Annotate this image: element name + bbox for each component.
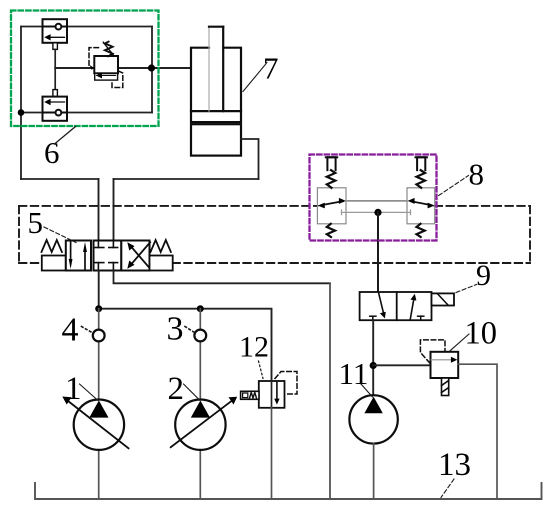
svg-text:7: 7 [263,51,279,86]
wire: upper link between cartridge valves [346,200,407,202]
wire: cylinder bottom port right and down [241,139,259,179]
wire: bottom line through check valve B [21,112,152,114]
wire: stem line between check valves [54,49,56,89]
wire: pump 1 suction/delivery column [98,309,100,330]
cartridge valve L bottom spring [327,224,335,237]
wire: pump 2 column [199,309,201,330]
valve 9 body [360,292,454,320]
main enclosure dashed frame: right edge [529,206,531,263]
svg-text:3: 3 [167,311,184,348]
cylinder 7 barrel [191,48,241,122]
wire: pump 11 outlet down to tank [373,444,375,499]
wire: right vertical of bridge in box 6 [151,27,153,113]
svg-text:9: 9 [476,259,491,292]
pump 11 [349,395,397,443]
svg-text:8: 8 [469,157,485,192]
leader for label 7 [243,63,267,92]
valve 5 left envelope down arrow [70,242,72,262]
check valve B (bottom, in box 6) [43,97,68,121]
leader for label 2 [184,384,201,401]
valve 5 right envelope [121,241,149,271]
leader for label 11 [361,384,373,397]
valve 5 right spring box [150,256,173,271]
svg-text:11: 11 [339,356,369,391]
directional valve 5 [42,240,173,271]
valve 9 left envelope arrow [379,292,384,313]
enclosure box 8 (purple dashed) [310,155,437,241]
pilot dashed loop bottom-right of reducing valve [112,71,123,88]
valve 9 actuator box [432,293,455,305]
svg-text:1: 1 [65,371,82,407]
pilot link end tick left [341,210,343,215]
main enclosure dashed frame: bottom edge left part [19,262,42,264]
wire: valve 5 tank port down then right [114,271,331,284]
wire: node to valve 10 inlet [373,364,430,366]
tank return line [35,483,542,499]
cartridge valve L flow arrow [321,201,343,205]
wire: top line through check valve A [21,26,152,28]
cartridge valve L top spring [327,170,336,188]
wire: pump rail horizontal [99,309,272,381]
valve 5 left envelope [66,241,91,271]
wire: lower pilot link between cartridge valves [342,211,411,213]
stem rect below check valve A [53,43,58,50]
spring with adjusting arrow above reducing valve [105,42,113,57]
node: centre junction of box 8 [374,209,381,216]
wire: box 8 junction down to valve 9 [377,212,379,292]
pump 1 [62,397,128,450]
cartridge valve R top spring [417,170,426,188]
wire: valve 9 outlet down to pump 11 node [372,320,374,395]
main enclosure dashed frame: bottom edge right part [173,262,531,264]
pilot link end tick right [410,210,412,215]
wire: valve 5 port down to pump rail [98,270,100,308]
wire: node to cylinder rod-side port [151,67,191,69]
valve 12 body [259,381,285,408]
valve 9 left blocked port [370,315,376,317]
check valve A (top, in box 6) [43,19,68,43]
valve 5 left envelope up arrow [84,250,86,270]
leader for label 1 [80,384,99,401]
stem rect above check valve B [53,90,58,97]
valve 10 internal arrow [431,359,452,361]
valve 9 right blocked port [418,315,424,317]
valve 10 pilot dashed loop [420,340,445,363]
valve 5 centre blocked ports [94,241,117,271]
main enclosure dashed frame: left edge [18,206,20,263]
cartridge valve R adjuster cap [417,157,425,170]
enclosure box 6 (green dashed) [11,11,159,127]
leader for label 13 [441,479,454,498]
check valve 4 [93,330,105,342]
leader for label 8 [439,176,469,196]
valve 5 left spring box [42,256,66,271]
svg-text:5: 5 [28,205,44,240]
main enclosure dashed frame: top edge right part [435,205,530,207]
valve 10 body [431,352,459,378]
main enclosure dashed frame: top edge left part [19,205,317,207]
svg-text:4: 4 [62,312,79,349]
leader for label 12 [259,361,264,379]
node: junction dot bottom-left of box 6 [18,109,25,116]
cartridge valve L (box 8 left) body [317,188,346,224]
svg-text:6: 6 [44,135,60,170]
valve 9 right envelope arrow [410,299,414,320]
wire: left horizontal feed line [21,178,99,180]
valve 10 spring block [442,378,449,396]
pilot arrowhead into reducing valve inlet [90,65,95,70]
pressure reducing valve (box 6 middle) [94,56,118,80]
node: rail junction pump 2 [197,305,204,312]
valve 5 centre envelope [94,241,122,271]
cylinder 7 piston rod [209,27,223,111]
leader for label 9 [456,285,477,293]
wire: drop to valve 5 port A [98,179,100,241]
wire: reducing valve outlet to node [118,67,151,69]
cartridge valve R flow arrow [411,201,432,205]
pilot dashed line left of reducing valve [89,48,99,66]
cartridge valve R (box 8 right) body [407,188,435,224]
valve 5 left spring [42,240,62,252]
leader dots for label 3 [185,327,195,333]
wire: valve 10 outlet to tank drop [458,364,497,499]
check valve 3 [194,330,206,342]
valve 5 right spring [151,240,171,252]
valve 5 crossed arrows [131,246,151,269]
svg-text:13: 13 [438,447,471,483]
node: junction dot right of box 6 [148,64,155,71]
cartridge valve R bottom spring [417,224,425,237]
wire: drop to valve 5 port B [113,179,115,241]
valve 12 solenoid [241,391,259,399]
svg-text:2: 2 [168,371,185,407]
leader for label 10 [450,334,469,351]
wire: middle branch to reducing valve [55,67,94,69]
node: pump 11 junction [370,362,377,369]
wire: right horizontal feed line [114,178,259,180]
pump 2 [171,397,238,450]
adjust arrow across spring [103,42,113,55]
valve 12 pilot dashed loop [275,372,297,395]
svg-text:10: 10 [465,316,498,352]
wire: left vertical from green box down [20,27,22,180]
node: rail junction pump 1 [95,305,102,312]
wire: tank drop from return rail [329,283,331,499]
leader dots for label 4 [82,327,93,333]
cylinder 7 lower chamber [191,124,241,155]
svg-text:12: 12 [239,331,269,364]
wire: valve 12 outlet to tank [271,408,273,499]
leader for label 5 [44,227,76,243]
leader for label 6 [55,127,76,145]
cartridge valve L adjuster cap [327,157,335,170]
valve 12 internal path [271,381,273,408]
